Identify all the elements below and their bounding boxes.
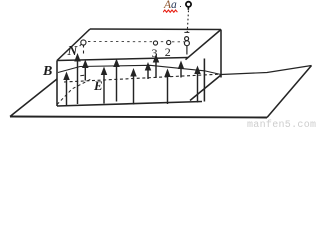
- dashed lead from top probe down to terminal 8: [187, 11, 188, 34]
- box front-top edge: [57, 58, 188, 61]
- dashed lead from terminal circle N down: [83, 45, 85, 57]
- label E: [94, 78, 103, 94]
- squiggle under Aa: [163, 9, 183, 14]
- terminal circle 3: [153, 41, 157, 45]
- box front-right vertical edge: [203, 59, 205, 102]
- box front-bottom edge: [57, 102, 202, 107]
- arrow mid row 1: [84, 65, 86, 81]
- terminal circle N tail: [80, 44, 82, 46]
- stray dash on hidden edge: [80, 74, 84, 77]
- box bottom-right slant edge: [190, 75, 221, 101]
- arrow front row 4: [167, 74, 169, 105]
- ground plane right edge: [267, 66, 312, 118]
- arrow tall back row 1: [77, 58, 79, 104]
- box hidden bottom-left slant edge (dashed): [57, 79, 91, 105]
- box front-left edge: [56, 61, 58, 107]
- ground plane bottom edge: [10, 117, 267, 118]
- box top-left slant edge: [57, 29, 90, 61]
- box back-right vertical edge: [220, 30, 222, 78]
- label N: [68, 43, 78, 59]
- dot after Aa: [180, 6, 182, 8]
- arrow mid row 2: [147, 67, 149, 79]
- ground plane top edge right of box: [221, 66, 312, 75]
- arrow front row 5: [197, 71, 199, 103]
- arrow tall back row 2: [116, 64, 118, 102]
- label B: [43, 64, 52, 80]
- label 2: [165, 45, 171, 60]
- terminal circle N: [81, 40, 86, 45]
- terminal 8 (double circle) with stem: [184, 32, 189, 54]
- ground plane left edge: [10, 79, 57, 117]
- E field arrows: [64, 55, 199, 105]
- terminal circle 2: [167, 40, 171, 44]
- top probe (bold circle with stem): [186, 2, 191, 10]
- box top-back edge: [90, 28, 221, 31]
- box top-right slant edge: [186, 30, 222, 60]
- text artifact Aa with spellcheck squiggle: [164, 0, 177, 11]
- label 3: [152, 46, 158, 61]
- watermark manfen5.com: [247, 120, 316, 131]
- arrow front row 2: [103, 75, 105, 104]
- arrow front row 1: [66, 77, 68, 106]
- short link of plane edge between box verticals: [204, 71, 221, 75]
- arrow back row 4: [180, 66, 182, 78]
- box hidden back-bottom edge (dashed): [64, 74, 219, 82]
- ground plane top edge seen through transparent box: [58, 65, 204, 72]
- arrow tall back row 3: [155, 59, 157, 78]
- arrow front row 3: [133, 73, 135, 105]
- top face dashed contact line: [88, 41, 184, 43]
